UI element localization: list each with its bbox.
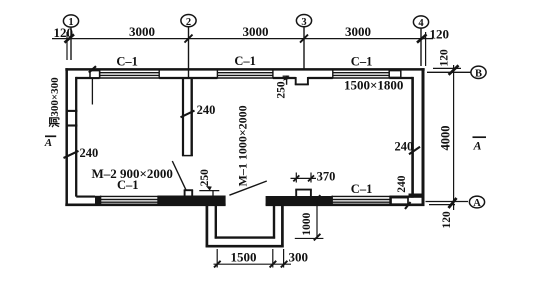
door nib left of M-1 bbox=[184, 190, 193, 196]
axis circle A bbox=[469, 196, 484, 209]
axis circle 4 bbox=[413, 16, 428, 29]
bottom wall jamb block left of window4 bbox=[95, 196, 101, 205]
top wall outer line bbox=[65, 68, 424, 71]
axis 4 stub line bbox=[420, 28, 422, 66]
svg-text:1500×1800: 1500×1800 bbox=[344, 77, 403, 92]
svg-text:120: 120 bbox=[430, 27, 450, 42]
svg-text:M–1 1000×2000: M–1 1000×2000 bbox=[235, 105, 249, 186]
porch right wall inner line bbox=[273, 205, 275, 239]
axis circle 2 bbox=[181, 15, 196, 28]
dim 240 at right wall: tick bbox=[409, 147, 420, 154]
porch bottom inner line bbox=[215, 236, 275, 238]
dim 370: right extension bbox=[310, 173, 312, 183]
axis circle 1 bbox=[63, 15, 78, 28]
door nib right of M-1 entrance wall bbox=[295, 190, 312, 197]
porch bottom outer line bbox=[206, 245, 284, 248]
svg-text:120: 120 bbox=[441, 211, 453, 229]
svg-text:3000: 3000 bbox=[129, 24, 155, 39]
svg-text:A: A bbox=[44, 137, 52, 149]
door leaf M-2 bbox=[172, 161, 186, 190]
dim 240 at partition: tick bbox=[181, 111, 195, 118]
bottom wall inner line seg 1 bbox=[76, 196, 95, 198]
svg-text:300: 300 bbox=[289, 250, 309, 265]
svg-text:C–1: C–1 bbox=[234, 54, 256, 68]
window3 right jamb block bbox=[389, 71, 401, 78]
dim 240 at left wall: tick bbox=[64, 151, 79, 158]
window C-1 no.4 bottom: glazing lines bbox=[101, 196, 158, 205]
top wall inner line seg 5 bbox=[389, 77, 412, 79]
dim 1500 porch: right extension bbox=[272, 249, 274, 268]
dim 250 at left nib: arrowhead bbox=[206, 186, 212, 191]
left wall inner line bbox=[75, 77, 77, 197]
dim 370: left tick bbox=[293, 175, 299, 181]
axis circle B bbox=[471, 66, 486, 79]
door leaf M-1 bbox=[229, 181, 266, 195]
svg-text:C–1: C–1 bbox=[116, 54, 138, 68]
top wall inner line seg 4 bbox=[308, 77, 333, 79]
svg-text:洞300×300: 洞300×300 bbox=[47, 77, 61, 128]
dim 1500 porch: left extension bbox=[216, 249, 218, 268]
partition wall right line bbox=[190, 79, 192, 157]
bottom wall solid segment window4 to door bbox=[158, 196, 226, 206]
window C-1 no.5 bottom: glazing lines bbox=[332, 196, 390, 205]
tick at axis 2 bbox=[185, 35, 193, 43]
partition wall left line bbox=[182, 79, 184, 157]
dim 250 arrowhead bbox=[283, 75, 290, 80]
dim 1000: bottom tick bbox=[314, 234, 321, 241]
right vertical dimension line bbox=[453, 65, 455, 210]
svg-text:2: 2 bbox=[186, 17, 191, 28]
svg-text:250: 250 bbox=[199, 169, 211, 187]
bottom wall outer line left segment bbox=[65, 204, 225, 207]
dim 1000: bottom extension line bbox=[295, 237, 324, 239]
top wall inner line seg 1 bbox=[76, 77, 99, 79]
dim 300: right extension bbox=[283, 249, 285, 268]
window1 jamb arrow bbox=[89, 66, 96, 72]
svg-text:M–2 900×2000: M–2 900×2000 bbox=[92, 166, 173, 181]
axis 3 stub line bbox=[303, 27, 305, 69]
dim 370: left extension bbox=[295, 173, 297, 183]
svg-text:1500: 1500 bbox=[231, 249, 257, 264]
svg-text:3: 3 bbox=[301, 17, 306, 28]
dim 1500/300 dimension line bbox=[214, 263, 292, 265]
window C-1 no.2 top: glazing lines bbox=[217, 70, 273, 79]
interior vertical line room1 bbox=[91, 79, 93, 105]
top wall inner line seg 3 bbox=[273, 77, 296, 79]
top wall inner line seg 2 bbox=[159, 77, 217, 79]
right wall inner line bbox=[411, 77, 414, 198]
svg-text:4000: 4000 bbox=[439, 126, 453, 151]
dim 250 at flue bump: arrow line bbox=[286, 76, 288, 85]
dim 250 at left nib: dimension line bbox=[199, 190, 219, 192]
section mark A right: overline bbox=[473, 136, 487, 138]
window C-1 no.3 top: glazing lines bbox=[333, 70, 389, 79]
svg-text:B: B bbox=[475, 69, 482, 80]
svg-text:C–1: C–1 bbox=[351, 55, 373, 69]
axis line B bbox=[427, 71, 471, 73]
svg-text:3000: 3000 bbox=[345, 24, 371, 39]
left wall outer line bbox=[65, 68, 68, 206]
dim 240 rotated: tick at wall bbox=[405, 202, 411, 209]
tick at axis 3 bbox=[300, 35, 308, 43]
window C-1 no.1 top: glazing lines bbox=[100, 70, 160, 79]
svg-text:240: 240 bbox=[80, 146, 99, 160]
axis line A bbox=[426, 201, 469, 203]
svg-text:3000: 3000 bbox=[243, 24, 269, 39]
svg-text:370: 370 bbox=[317, 169, 336, 183]
dim 1000: top tick bbox=[314, 195, 321, 202]
top dimension line bbox=[52, 38, 433, 40]
bottom wall jamb block right of window5 bbox=[391, 198, 408, 205]
porch left wall outer line bbox=[206, 205, 209, 248]
bottom-right inner corner blob bbox=[409, 194, 425, 198]
porch left wall inner line bbox=[215, 205, 217, 239]
wall hole upper edge bbox=[66, 110, 78, 112]
bottom wall outer line right segment bbox=[266, 204, 425, 207]
section mark A left: overline bbox=[45, 135, 56, 137]
svg-text:240: 240 bbox=[197, 103, 216, 117]
tick at B bbox=[449, 65, 459, 74]
axis 4 extension line bbox=[425, 32, 427, 66]
right top wall-face extension line bbox=[433, 67, 461, 69]
axis 1 extension line bbox=[66, 32, 68, 60]
wall hole lower edge bbox=[66, 124, 78, 126]
tick at A bbox=[449, 198, 457, 208]
svg-text:A: A bbox=[473, 198, 481, 209]
porch right wall outer line bbox=[281, 205, 284, 248]
partition wall end cap bbox=[182, 155, 193, 157]
svg-text:1000: 1000 bbox=[301, 212, 313, 235]
svg-text:A: A bbox=[473, 139, 482, 153]
dim 1500: left tick bbox=[214, 261, 221, 268]
svg-text:240: 240 bbox=[396, 175, 408, 193]
dim 300: tick bbox=[281, 261, 288, 268]
window1 left jamb block bbox=[90, 71, 100, 78]
flue bump near axis 3 bbox=[295, 77, 309, 85]
tick at axis 1 bbox=[65, 34, 75, 42]
axis circle 3 bbox=[296, 15, 311, 28]
dim 370: dimension line bbox=[291, 177, 317, 179]
dim 370: right tick bbox=[308, 175, 314, 181]
dim 1500: right tick bbox=[270, 261, 277, 268]
svg-text:4: 4 bbox=[418, 18, 424, 29]
svg-text:120: 120 bbox=[54, 25, 74, 40]
right wall outer line bbox=[422, 68, 425, 206]
bottom wall solid segment door to window5 bbox=[266, 196, 333, 205]
tick at axis 4 bbox=[417, 34, 427, 42]
svg-text:240: 240 bbox=[395, 140, 414, 154]
dim 250 at left nib: extension tick bbox=[212, 191, 214, 197]
right bottom wall-face extension line bbox=[429, 204, 455, 206]
svg-text:250: 250 bbox=[276, 81, 288, 99]
svg-text:C–1: C–1 bbox=[351, 182, 373, 196]
bottom wall inner line seg right corner bbox=[390, 196, 413, 198]
dim 1000: vertical dimension line bbox=[316, 198, 318, 239]
svg-text:120: 120 bbox=[439, 49, 451, 67]
dim 250 at flue bump: extension dash bbox=[283, 75, 290, 77]
axis 1 stub line bbox=[70, 27, 72, 60]
axis 2 stub line bbox=[188, 27, 190, 78]
